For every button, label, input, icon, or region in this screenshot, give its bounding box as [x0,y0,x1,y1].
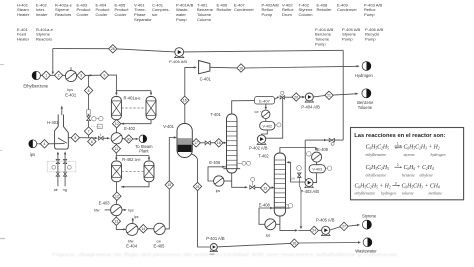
wire E-407 to V-402 [265,119,267,122]
pump P-401 [210,244,217,251]
wire d24 to P-405 [318,229,321,231]
diamond stream 16 [181,96,189,104]
svg-text:11: 11 [115,147,119,151]
wire recycle riser [342,50,344,140]
wire T-401 overhead [232,101,255,114]
reactor R-401a [111,97,121,120]
svg-text:lps: lps [134,215,139,219]
wire d11 to R-402 splitter [116,153,149,156]
svg-text:Pump: Pump [364,12,375,17]
heat exchanger E-403 [111,204,122,215]
valve ng lower [63,172,66,176]
wire arrow into R-401e [150,91,152,94]
wire R-401e outlet [121,120,151,124]
svg-text:R-402 a-e: R-402 a-e [122,157,141,162]
svg-text:P-401 A/B: P-401 A/B [206,236,225,241]
wire V-401 boot line [192,154,198,183]
wire T-402 overhead [280,148,316,154]
svg-text:24: 24 [312,229,316,233]
svg-text:hps: hps [67,88,73,92]
pump P-404 [305,93,313,101]
svg-text:Condenser: Condenser [337,7,357,12]
heat exchanger E-406 [214,176,224,186]
svg-text:Pump: Pump [176,17,187,22]
heat exchanger E-401 [65,70,76,81]
diamond stream 13 [112,217,120,225]
separator V-401 [177,124,192,158]
svg-text:21: 21 [327,94,331,98]
diamond stream 28 [109,45,117,53]
diamond stream 1 [42,71,50,79]
wire furnace outlet [68,137,71,139]
diamond stream 20 [292,93,300,101]
svg-text:(A): (A) [291,177,295,181]
svg-text:19: 19 [239,66,243,70]
diamond stream 15 [165,181,173,189]
reactions box frame [351,128,464,200]
wire benzene toluene out [333,94,355,95]
drum V-403 [309,165,325,173]
diamond stream 23 [260,183,270,193]
wire ctrl valve drop [299,178,301,227]
wire instrument dashes [91,125,97,127]
diamond stream 21 [325,91,333,99]
V-401 light band [178,138,192,145]
column T-401 [227,114,238,173]
wire d20 to P-404 [300,96,303,98]
svg-text:Hydrogen: Hydrogen [355,73,373,78]
svg-text:V-402: V-402 [262,124,272,128]
scan artifact left edge [0,64,4,66]
diamond stream 2 [54,71,62,79]
svg-text:C6H5C2H5 + H2: C6H5C2H5 + H2 [355,184,391,190]
wire recycle downcomer [52,49,54,73]
svg-text:7: 7 [88,129,90,133]
wire E-406 to column [224,180,232,182]
svg-text:C6H5CH3 + CH4: C6H5CH3 + CH4 [402,184,440,190]
V-401 dark band [178,145,192,152]
svg-text:2: 2 [58,74,60,78]
svg-text:V-403: V-403 [312,168,322,172]
svg-text:FC: FC [98,127,101,129]
diamond stream 8 [84,86,92,94]
wire bottoms jog [298,229,310,231]
svg-text:Reboiler: Reboiler [217,7,233,12]
diamond stream 14 [139,225,147,233]
wire ng line [64,154,66,187]
svg-text:ethylbenzene: ethylbenzene [355,191,376,196]
wire arrow into R-401a [115,91,117,94]
svg-text:C6H5C2H3 + H2: C6H5C2H3 + H2 [404,145,440,151]
svg-text:30: 30 [127,137,131,141]
diamond stream 3 [77,71,85,79]
wire hydrogen line [245,66,357,68]
compressor C-401 [199,61,210,74]
svg-text:26: 26 [293,241,297,245]
diamond stream 18 [215,139,223,147]
wire E-406 loop top [208,167,227,181]
wire d8 to control valve [88,95,90,117]
stream input Ethylbenzene [32,71,40,79]
svg-text:Plant: Plant [139,149,149,154]
diamond stream 24 [310,226,318,234]
svg-text:P-404 A/B: P-404 A/B [301,104,320,109]
svg-text:15: 15 [167,183,171,187]
wire valve to d7 [88,121,90,127]
svg-text:P-406 A/B: P-406 A/B [169,59,187,64]
wire styrene out [348,225,357,226]
furnace H-401 [55,115,69,150]
svg-text:hps: hps [128,209,134,213]
diamond stream 6 [88,137,96,145]
svg-text:Separator: Separator [134,17,152,22]
wire junction to E-402 inlet [89,137,97,139]
diamond stream 9 [100,71,108,79]
wire arrow into R-402a [115,156,117,159]
T-401 bottom flange [223,168,240,170]
wire d16 to C-401 [185,67,194,96]
svg-text:Cooler: Cooler [115,12,128,17]
svg-text:lps: lps [266,234,271,238]
wire C-401 to d19 [210,66,237,69]
svg-text:Reactors: Reactors [55,12,71,17]
control valve steam [87,116,91,121]
wire valve to d20 [285,96,293,98]
wire valve to E-402 [103,137,108,139]
svg-text:toluene: toluene [402,191,414,196]
svg-text:Column: Column [299,12,313,17]
diamond stream 5 [71,134,79,142]
svg-text:ips: ips [30,152,35,157]
wire E-402 to d11 [115,143,117,146]
svg-text:20: 20 [294,95,298,99]
svg-text:Pump: Pump [262,12,273,17]
wire E-401 to d3 [76,74,79,76]
svg-text:air: air [54,188,59,192]
svg-text:E-404: E-404 [126,244,138,249]
svg-text:Heater: Heater [17,12,30,17]
stream output To Steam Plant [139,135,147,143]
valve reflux split [280,96,284,99]
wire P-405 to d27 [330,227,340,230]
pump P-405 [322,226,330,234]
svg-text:Cooler: Cooler [77,12,90,17]
instrument V-403 [327,166,331,170]
valve air lower [56,172,59,176]
wire E-405 to V-401 [165,189,169,229]
svg-text:Las reacciones en el reactor s: Las reacciones en el reactor son: [354,133,445,139]
wire P-402 riser [266,97,283,138]
svg-text:23: 23 [264,186,268,190]
svg-text:5: 5 [74,136,76,140]
wire T-401 bottoms [232,173,246,187]
svg-text:P-403 A/B: P-403 A/B [301,189,320,194]
svg-text:Styrene: Styrene [362,213,377,218]
wire V-401 to d17 [191,142,193,144]
diamond stream 17 [192,139,200,147]
instrument box FIC [97,124,102,128]
wire E-408 to downcomer [276,223,280,225]
instrument frame [47,161,76,172]
svg-text:25: 25 [196,185,200,189]
diamond stream 26 [290,239,298,247]
svg-text:Cooler: Cooler [96,12,109,17]
wire recycle to pump [117,49,175,52]
wire valve to d23 [255,186,261,188]
svg-text:E-406: E-406 [209,160,221,165]
svg-text:hydrogen: hydrogen [381,191,396,196]
svg-text:C6H6 + C2H4: C6H6 + C2H4 [404,165,434,171]
svg-text:P-405 A/B: P-405 A/B [316,217,335,222]
stream output Benzene Toluene [362,89,371,98]
wire lps out E-404 [132,220,134,224]
svg-text:ng: ng [63,188,67,192]
svg-text:6: 6 [91,140,93,144]
svg-text:lps: lps [216,189,221,193]
svg-text:C-401: C-401 [200,77,212,82]
svg-text:E-409: E-409 [317,147,329,152]
svg-text:Heater: Heater [17,37,30,42]
wire dashed R-401 link [121,107,146,109]
svg-text:Figura: diagrama de flujo del: Figura: diagrama de flujo del proceso de… [52,252,398,258]
wire R-401a outlet [115,120,117,133]
svg-text:H-401: H-401 [47,120,59,125]
svg-text:heater: heater [36,12,48,17]
svg-text:27: 27 [342,225,346,229]
svg-text:Drum: Drum [282,12,293,17]
wire d17 to valve [200,142,205,144]
wire P-401 to d26 [217,243,290,247]
valve E-402 feed [99,136,104,140]
svg-text:Pump: Pump [365,37,376,42]
pump P-406 [175,48,184,57]
wire E-408 loop [259,208,274,224]
column T-402 [274,153,285,216]
valve T-402 bottoms ctrl [298,173,302,177]
wire E-403 to d13 [115,216,117,217]
diamond stream 7 [84,127,92,135]
T-402 bottom flange [272,207,290,209]
svg-text:10: 10 [115,122,119,126]
wire ethylbenzene to d1 [40,74,42,76]
wire hps stub E-401 [70,67,72,70]
svg-text:28: 28 [111,47,115,51]
svg-text:T-401: T-401 [210,112,221,117]
wire E-409 to V-403 [316,162,318,165]
svg-text:hydrogen: hydrogen [431,152,446,157]
diamond stream 10 [112,120,120,128]
wire ips to d4 [37,143,40,145]
diamond stream 30 [125,135,133,143]
wire d26 to wastewater [299,242,359,245]
svg-text:T-402: T-402 [258,154,269,159]
svg-text:methane: methane [429,191,443,196]
wire into E-409 [315,148,317,149]
wire d4 into furnace [49,143,65,145]
wire to E-407 [265,104,267,108]
svg-text:R-401a-e: R-401a-e [124,96,142,101]
wire main to d8 [88,75,90,86]
wire d9 to reactor splitter [109,75,151,91]
svg-text:Column: Column [197,17,211,22]
svg-text:9: 9 [103,73,105,77]
stream output Hydrogen [362,62,371,71]
diamond stream 12 [113,192,121,200]
heat exchanger E-404 [126,223,138,235]
wire R-402a outlet [116,182,118,205]
reactor R-402a [112,161,122,182]
svg-text:benzene: benzene [402,172,415,177]
wire boot to P-401 [198,191,211,247]
wire bfw into E-403 [105,209,111,211]
diamond stream 4 [40,140,48,148]
wire to steam plant [133,138,136,140]
instrument air [52,165,56,169]
pump P-403 [305,179,313,187]
svg-text:cw: cw [255,110,260,114]
reactor R-401e [146,97,156,120]
valve ng upper [63,160,66,164]
wire E-402 steam out [122,138,124,140]
svg-text:E-401: E-401 [65,93,77,98]
svg-text:E-403: E-403 [99,200,111,205]
svg-text:Pump: Pump [342,37,353,42]
heat exchanger E-409 [312,152,322,162]
heat exchanger E-408 [265,219,276,230]
wire d23 to T-402 [270,187,272,189]
svg-text:1: 1 [397,142,399,146]
svg-text:Condenser: Condenser [234,7,254,12]
furnace stack arrow [61,108,63,115]
svg-text:18: 18 [217,141,221,145]
svg-text:E-408: E-408 [259,203,271,208]
svg-text:4: 4 [44,142,46,146]
svg-text:C6H5C2H5: C6H5C2H5 [366,145,390,151]
wire valve to d18 [210,142,214,144]
wire d2 to E-401 [63,74,66,76]
diamond stream 25 [193,182,201,190]
reactor R-402e [144,161,154,182]
stream input ips [29,140,37,148]
wire d15 up to V-401 inlet [169,138,174,181]
wire P-403 recycle [305,140,306,181]
svg-text:13: 13 [114,219,118,223]
drum V-402 [260,122,275,130]
svg-text:17: 17 [194,141,198,145]
wire d1 to d2 [50,74,54,76]
wire air line [57,154,59,187]
instrument T-402 reflux ctrl [297,166,302,171]
valve T-402 feed [250,185,255,189]
wire dashed R-402 link [122,170,145,172]
svg-text:3: 3 [80,74,82,78]
svg-text:2: 2 [397,163,399,167]
svg-text:E-407: E-407 [259,98,270,103]
wire d3 to d9 [85,74,100,76]
wire d13 to E-404 [116,225,124,229]
wire P-404 to d21 [313,96,325,97]
wire T-402 bottoms [280,216,296,230]
instrument circles E-402 feed [92,117,96,121]
svg-text:14: 14 [141,227,145,231]
wire d5 to junction [80,137,89,139]
svg-text:Toluene: Toluene [358,105,373,110]
svg-text:Pump: Pump [315,42,326,47]
svg-text:sor: sor [152,12,158,17]
instrument cw E-409 [307,152,312,157]
wire R-402e outlet [121,182,149,187]
wire recycle from pump [183,50,343,52]
wire V-402 to P-402 [262,130,268,135]
wire d7 to junction [88,135,90,138]
svg-text:P-402 A/B: P-402 A/B [249,145,268,150]
wire cw stub E-407 [260,111,262,112]
instrument V-402 [277,123,281,127]
control valve actuator [87,110,91,114]
heat exchanger E-405 [154,223,165,234]
heat exchanger E-402 [111,133,122,144]
node reflux junction [277,96,279,98]
svg-text:3: 3 [395,181,397,185]
furnace coil [58,138,67,143]
svg-text:Ethylbenzene: Ethylbenzene [23,83,49,88]
diamond stream 11 [112,145,120,153]
diamond stream 27 [340,222,348,230]
svg-text:ethylbenzene: ethylbenzene [366,172,387,177]
svg-text:Reboiler: Reboiler [317,7,333,12]
wire d14 stubs [138,228,139,230]
wire hps out E-403 [122,209,124,211]
valve V-401 outlet [205,141,210,145]
svg-text:12: 12 [115,194,119,198]
svg-text:C6H5C2H5: C6H5C2H5 [366,165,390,171]
label E-407 box [255,97,275,104]
wire P-403 reflux [289,162,306,182]
wire V-403 to P-403 [313,173,317,183]
stream output Wastewater [363,238,372,247]
heat exchanger E-407 [262,110,270,118]
svg-text:1: 1 [45,74,47,78]
svg-text:ethylbenzene: ethylbenzene [366,152,387,157]
instrument ng [67,165,71,169]
svg-text:ethylene: ethylene [420,172,434,177]
wire d18 to T-401 [223,142,224,144]
svg-text:E-402: E-402 [124,126,136,131]
svg-text:bfw: bfw [94,209,100,213]
svg-text:E-405: E-405 [154,244,166,249]
recycle line B [305,139,343,141]
wire arrow into R-402e [148,156,150,159]
instrument circles T-401 [242,161,246,165]
pump P-402 [257,135,265,143]
svg-text:Reactors: Reactors [36,37,52,42]
svg-text:16: 16 [183,99,187,103]
wire recycle top left [53,48,109,50]
diamond stream 19 [237,64,245,72]
svg-text:8: 8 [88,89,90,93]
stream output Styrene [362,220,371,229]
instrument T-402 side [288,204,292,208]
wire V-401 vapor to d16 [184,105,186,124]
valve air upper [56,160,59,164]
svg-text:V-401: V-401 [163,124,174,129]
svg-text:styrene: styrene [404,152,416,157]
